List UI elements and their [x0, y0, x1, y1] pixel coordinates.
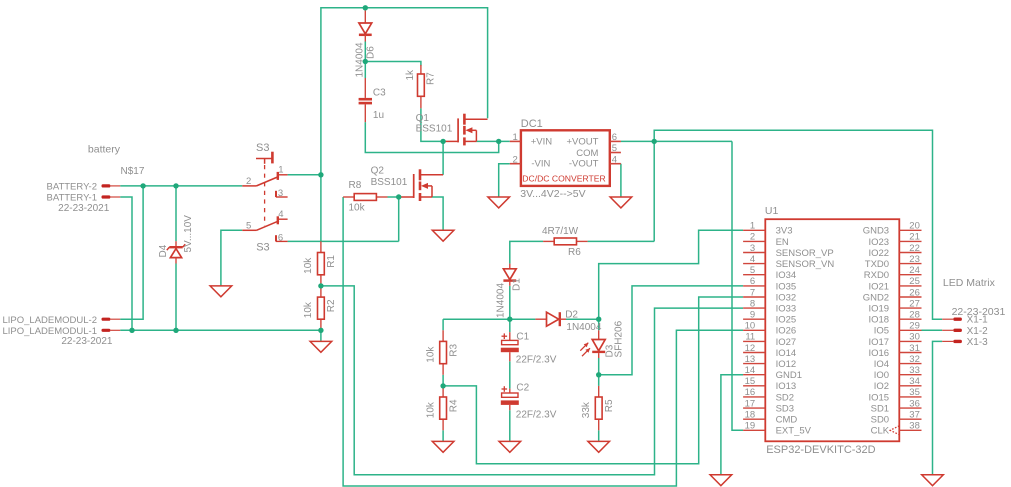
wire C2 to ground — [509, 410, 511, 441]
resistor R4 10k — [425, 386, 459, 430]
svg-text:S3: S3 — [256, 142, 269, 154]
junction D6-C3-R7 — [363, 59, 368, 64]
wire D3 cathode to junction — [598, 358, 600, 375]
svg-text:10k: 10k — [425, 346, 436, 363]
svg-text:D6: D6 — [366, 46, 377, 59]
svg-text:6: 6 — [278, 233, 283, 244]
svg-text:10k: 10k — [303, 257, 314, 274]
svg-text:IO21: IO21 — [868, 281, 889, 292]
ground below R4 — [432, 441, 454, 452]
svg-text:5V...10V: 5V...10V — [183, 215, 194, 253]
U1 pin 31 IO16 — [868, 343, 921, 359]
svg-text:IO32: IO32 — [776, 292, 797, 303]
svg-text:COM: COM — [576, 148, 598, 159]
svg-text:IO19: IO19 — [868, 304, 889, 315]
svg-text:R4: R4 — [448, 399, 459, 412]
svg-text:Q1: Q1 — [416, 113, 430, 124]
junction Q1 gate — [440, 139, 445, 144]
label DC1 range — [520, 188, 585, 200]
wire gnd rail lipo-1 — [120, 329, 321, 331]
svg-text:IO0: IO0 — [874, 370, 889, 381]
svg-text:EN: EN — [776, 237, 789, 248]
pin LIPO_LADEMODUL-1 — [102, 329, 121, 332]
svg-text:5: 5 — [246, 220, 251, 231]
svg-text:BSS101: BSS101 — [416, 124, 453, 135]
svg-text:3V...4V2-->5V: 3V...4V2-->5V — [520, 188, 585, 200]
svg-text:19: 19 — [745, 421, 756, 432]
svg-text:3: 3 — [750, 243, 755, 254]
wire GND1 pin14 to ground — [721, 375, 743, 475]
pin LIPO_LADEMODUL-2 — [102, 318, 121, 321]
svg-text:5: 5 — [612, 143, 617, 154]
svg-text:22-23-2021: 22-23-2021 — [61, 336, 113, 347]
label 22-23-2021 battery — [58, 203, 110, 214]
wire R3 to junction — [442, 375, 444, 386]
svg-text:IO35: IO35 — [776, 281, 797, 292]
svg-text:D1: D1 — [512, 278, 523, 291]
U1 pin 24 RXD0 — [864, 265, 922, 281]
junction R1-R2 tap — [318, 283, 323, 288]
svg-text:SD1: SD1 — [871, 404, 889, 415]
label 22-23-2031 — [952, 306, 1006, 318]
svg-text:R8: R8 — [349, 180, 362, 191]
svg-text:RXD0: RXD0 — [864, 270, 889, 281]
wire R5 top — [598, 375, 600, 386]
svg-text:SD0: SD0 — [871, 415, 889, 426]
svg-text:20: 20 — [909, 221, 920, 232]
svg-text:38: 38 — [909, 421, 920, 432]
wire D2 cathode wire — [566, 318, 599, 320]
junction battery-2 D4 — [173, 183, 178, 188]
wire R5 bottom — [598, 430, 600, 441]
junction S3 to rail — [318, 172, 323, 177]
pin X1-2 — [942, 326, 988, 337]
U1 pin 4 SENSOR_VN — [743, 254, 834, 270]
U1 pin 10 IO26 — [743, 321, 796, 337]
wire top rail — [321, 8, 488, 242]
U1 pin 12 IO14 — [743, 343, 796, 359]
svg-text:37: 37 — [909, 410, 920, 421]
wire D6 cathode — [364, 42, 366, 79]
svg-text:22-23-2031: 22-23-2031 — [952, 306, 1006, 318]
svg-text:IO22: IO22 — [868, 248, 889, 259]
svg-text:GND1: GND1 — [776, 370, 802, 381]
svg-text:13: 13 — [745, 354, 756, 365]
U1 pin 20 GND3 — [863, 221, 922, 237]
svg-text:18: 18 — [745, 410, 756, 421]
switch S3 actuator — [256, 152, 272, 226]
U1 pin 33 IO0 — [874, 365, 922, 381]
svg-text:25: 25 — [909, 276, 920, 287]
svg-text:-VIN: -VIN — [531, 159, 550, 170]
svg-text:10k: 10k — [349, 203, 366, 214]
switch S3 pole A — [242, 164, 287, 199]
svg-text:3: 3 — [278, 188, 283, 199]
svg-text:2: 2 — [246, 176, 251, 187]
svg-text:IO2: IO2 — [874, 381, 889, 392]
svg-text:9: 9 — [750, 310, 755, 321]
U1 pin 32 IO4 — [874, 354, 922, 370]
svg-text:1k: 1k — [405, 69, 416, 81]
svg-text:10k: 10k — [425, 401, 436, 418]
pin BATTERY-2 — [102, 184, 121, 187]
svg-text:22: 22 — [909, 243, 920, 254]
svg-text:IO25: IO25 — [776, 315, 797, 326]
svg-text:BATTERY-1: BATTERY-1 — [46, 192, 97, 203]
U1 pin 13 IO12 — [743, 354, 796, 370]
ground below X1-3 — [922, 475, 944, 486]
ground below DC1 -VOUT — [610, 197, 632, 208]
svg-text:IO16: IO16 — [868, 348, 889, 359]
svg-text:S3: S3 — [256, 241, 269, 253]
wire 5V down to R6 — [653, 141, 655, 241]
ground below DC1 -VIN — [488, 197, 510, 208]
wire S3 pin1 to rail — [288, 174, 321, 176]
label R6 — [568, 247, 581, 258]
wire R1R2 tap to IO33 — [321, 286, 743, 475]
svg-text:10: 10 — [745, 321, 756, 332]
svg-text:battery: battery — [88, 144, 121, 156]
svg-text:GND2: GND2 — [863, 292, 889, 303]
svg-text:ESP32-DEVKITC-32D: ESP32-DEVKITC-32D — [766, 444, 875, 456]
svg-text:N$17: N$17 — [121, 166, 145, 177]
svg-text:11: 11 — [745, 332, 755, 343]
svg-text:28: 28 — [909, 310, 920, 321]
svg-text:C2: C2 — [516, 382, 529, 393]
photodiode D3 SFH206 — [580, 320, 624, 358]
wire D1 to 3V3 node — [509, 286, 511, 319]
svg-text:35: 35 — [909, 387, 920, 398]
U1 pin 21 IO23 — [868, 232, 921, 248]
label LIPO_LADEMODUL-2 — [2, 315, 97, 326]
U1 pin 28 IO18 — [868, 310, 921, 326]
svg-text:-VOUT: -VOUT — [569, 159, 599, 170]
label S3 bottom — [256, 241, 269, 253]
svg-text:8: 8 — [750, 298, 755, 309]
svg-text:IO15: IO15 — [868, 392, 889, 403]
label ESP32-DEVKITC-32D — [766, 444, 875, 456]
svg-text:IO4: IO4 — [874, 359, 889, 370]
capacitor C2 22F/2.3V — [501, 382, 557, 420]
wire battery+ rail — [120, 185, 242, 187]
svg-text:22F/2.3V: 22F/2.3V — [516, 409, 557, 420]
svg-text:CMD: CMD — [776, 415, 798, 426]
svg-text:33: 33 — [909, 365, 920, 376]
transistor Q1 BSS101 — [416, 113, 488, 145]
wire 3V3 row left — [443, 318, 535, 320]
svg-text:R6: R6 — [568, 247, 581, 258]
diode D2 1N4004 — [535, 310, 601, 333]
ground below GND1 — [710, 475, 732, 486]
capacitor C1 22F/2.3V — [501, 331, 557, 365]
svg-text:SENSOR_VP: SENSOR_VP — [776, 248, 834, 259]
wire R7 to Q1 gate — [421, 108, 443, 141]
wire C3 bottom to Q1 source — [365, 122, 498, 152]
U1 pin 9 IO25 — [743, 310, 796, 326]
pin X1-1 — [942, 315, 988, 326]
svg-text:IO13: IO13 — [776, 381, 797, 392]
junction +5V node — [652, 139, 657, 144]
resistor R1 10k — [303, 241, 337, 286]
svg-text:4: 4 — [612, 154, 617, 165]
wire R3R4 tap to IO32 — [443, 297, 743, 464]
wire Q2 source to ground — [432, 197, 443, 230]
U1 pin 34 IO2 — [874, 376, 922, 392]
svg-text:1: 1 — [750, 221, 755, 232]
U1 pin 14 GND1 — [743, 365, 802, 381]
svg-text:4R7/1W: 4R7/1W — [542, 226, 579, 237]
U1 pin 18 CMD — [743, 410, 797, 426]
DC/DC converter DC1 — [510, 118, 621, 186]
svg-text:IO26: IO26 — [776, 326, 797, 337]
wire DC1 -VIN to ground — [499, 164, 510, 197]
wire D3 node to IO35 — [599, 286, 743, 375]
resistor R6 4R7/1W — [543, 238, 588, 245]
wire Q1 source to DC1 +VIN — [476, 140, 509, 142]
U1 pin 22 IO22 — [868, 243, 921, 259]
zener diode D4 5V...10V — [158, 215, 194, 264]
label BATTERY-2 — [46, 181, 97, 192]
wire S3 pin5 to ground — [221, 230, 242, 286]
wire D4 to gnd rail — [175, 264, 177, 331]
svg-text:1: 1 — [513, 132, 518, 143]
U1 pin 15 IO13 — [743, 376, 796, 392]
svg-text:34: 34 — [909, 376, 920, 387]
resistor R3 10k — [425, 330, 459, 375]
svg-text:14: 14 — [745, 365, 756, 376]
svg-text:D4: D4 — [158, 244, 169, 257]
U1 pin 27 IO19 — [868, 298, 921, 314]
U1 pin 17 SD3 — [743, 398, 794, 414]
U1 pin 11 IO27 — [743, 332, 796, 348]
svg-text:33k: 33k — [581, 401, 592, 418]
switch S3 pole B — [242, 209, 287, 244]
svg-text:1: 1 — [278, 164, 283, 175]
svg-text:29: 29 — [909, 321, 920, 332]
label R8 — [349, 180, 362, 191]
svg-text:21: 21 — [909, 232, 920, 243]
wire 3V3 node to pin1 — [599, 230, 743, 319]
wire D6 node to R7 — [365, 62, 421, 66]
wire S3 pin6 wire — [288, 240, 399, 242]
junction top rail D6 — [363, 5, 368, 10]
svg-text:5: 5 — [750, 265, 755, 276]
svg-text:1u: 1u — [373, 110, 384, 121]
U1 pin 25 IO21 — [868, 276, 921, 292]
wire R6 left to D1 — [510, 241, 543, 263]
junction D3 cathode — [596, 372, 601, 377]
junction 3V3 C1 — [507, 317, 512, 322]
ground below S3 pole2 — [210, 286, 232, 297]
label R8 value — [349, 203, 366, 214]
svg-text:31: 31 — [909, 343, 920, 354]
junction gnd rail a — [129, 328, 134, 333]
wire 5V to EXT_5V pin19 — [732, 141, 743, 430]
svg-text:R1: R1 — [326, 255, 337, 268]
svg-text:IO14: IO14 — [776, 348, 797, 359]
resistor R7 1k — [405, 65, 436, 108]
svg-text:X1-3: X1-3 — [967, 337, 989, 348]
wire C1 top — [509, 319, 511, 332]
capacitor C3 1u — [359, 78, 387, 122]
svg-text:22-23-2021: 22-23-2021 — [58, 203, 110, 214]
svg-text:+VOUT: +VOUT — [566, 137, 598, 148]
svg-text:2: 2 — [750, 232, 755, 243]
wire DC1 -VOUT to ground — [620, 164, 622, 197]
wire 5V to X1-1 — [654, 130, 942, 319]
U1 pin 29 IO5 — [874, 321, 922, 337]
label R6 value — [542, 226, 579, 237]
svg-text:4: 4 — [750, 254, 755, 265]
svg-text:TXD0: TXD0 — [865, 259, 889, 270]
svg-text:IO27: IO27 — [776, 337, 797, 348]
junction gnd rail R2 — [318, 328, 323, 333]
svg-text:R5: R5 — [604, 399, 615, 412]
U1 pin 19 EXT_5V — [743, 421, 812, 437]
svg-text:4: 4 — [278, 209, 283, 220]
pin X1-3 — [942, 337, 988, 348]
ground below Q2 — [432, 230, 454, 241]
ground below R5 — [588, 441, 610, 452]
svg-text:IO34: IO34 — [776, 270, 797, 281]
wire X1-2 to IO5 — [922, 329, 943, 331]
U1 pin 1 3V3 — [743, 221, 792, 237]
svg-text:IO18: IO18 — [868, 315, 889, 326]
svg-text:LED Matrix: LED Matrix — [943, 277, 996, 289]
U1 pin 23 TXD0 — [865, 254, 922, 270]
wire Q1 to Q2 drain — [442, 141, 444, 174]
svg-text:22F/2.3V: 22F/2.3V — [516, 354, 557, 365]
resistor R5 33k — [581, 386, 615, 430]
svg-text:Q2: Q2 — [371, 166, 385, 177]
wire R3 top — [442, 319, 444, 330]
wire R2 bottom to ground — [320, 330, 322, 341]
wire R8 right to junction — [388, 196, 399, 198]
svg-text:6: 6 — [750, 276, 755, 287]
svg-text:26: 26 — [909, 287, 920, 298]
svg-text:16: 16 — [745, 387, 756, 398]
U1 pin 7 IO32 — [743, 287, 796, 303]
svg-text:D2: D2 — [565, 310, 578, 321]
ground below C2 — [499, 441, 521, 452]
svg-text:BSS101: BSS101 — [371, 177, 408, 188]
diode D6 1N4004 — [354, 11, 376, 78]
svg-text:R7: R7 — [426, 72, 437, 85]
IC U1 body — [765, 219, 899, 441]
label battery — [88, 144, 121, 156]
svg-text:3V3: 3V3 — [776, 226, 793, 237]
svg-text:30: 30 — [909, 332, 920, 343]
svg-text:6: 6 — [612, 132, 617, 143]
svg-text:IO12: IO12 — [776, 359, 797, 370]
svg-text:DC1: DC1 — [521, 118, 543, 130]
svg-text:LIPO_LADEMODUL-2: LIPO_LADEMODUL-2 — [2, 315, 97, 326]
svg-text:24: 24 — [909, 265, 920, 276]
svg-text:27: 27 — [909, 298, 920, 309]
svg-text:IO33: IO33 — [776, 304, 797, 315]
wire lipo-2 to battery-2 — [120, 186, 143, 319]
wire C1 to C2 — [509, 361, 511, 388]
svg-text:DC/DC CONVERTER: DC/DC CONVERTER — [522, 174, 605, 184]
label S3 top — [256, 142, 269, 154]
transistor Q2 BSS101 — [371, 166, 444, 202]
resistor R2 10k — [303, 286, 337, 330]
svg-text:CLK: CLK — [871, 426, 890, 437]
U1 pin 6 IO35 — [743, 276, 796, 292]
svg-text:GND3: GND3 — [863, 226, 889, 237]
U1 pin 16 SD2 — [743, 387, 794, 403]
label LED Matrix — [943, 277, 996, 289]
svg-text:+VIN: +VIN — [531, 137, 553, 148]
U1 pin 3 SENSOR_VP — [743, 243, 834, 259]
svg-text:BATTERY-2: BATTERY-2 — [46, 181, 97, 192]
svg-text:SD2: SD2 — [776, 392, 794, 403]
svg-text:10k: 10k — [303, 301, 314, 318]
resistor R8 10k — [343, 194, 387, 201]
svg-text:15: 15 — [745, 376, 756, 387]
U1 pin 8 IO33 — [743, 298, 796, 314]
svg-text:SENSOR_VN: SENSOR_VN — [776, 259, 835, 270]
svg-text:IO23: IO23 — [868, 237, 889, 248]
svg-text:2: 2 — [513, 154, 518, 165]
wire DC1 +VOUT 5V rail — [621, 140, 732, 142]
junction gnd rail D4 — [173, 328, 178, 333]
junction Q1 source +VIN — [496, 139, 501, 144]
svg-text:SFH206: SFH206 — [614, 320, 625, 357]
junction 3V3 D2-D3 — [596, 317, 601, 322]
junction Q2 gate — [396, 194, 401, 199]
wire R6 right wire — [588, 240, 655, 242]
svg-text:1N4004: 1N4004 — [495, 283, 506, 318]
svg-text:X1-2: X1-2 — [967, 326, 989, 337]
svg-text:IO5: IO5 — [874, 326, 889, 337]
wire X1-3 to ground — [933, 341, 943, 474]
label N$17 — [121, 166, 145, 177]
U1 pin 37 SD0 — [871, 410, 922, 426]
junction battery-2 a — [140, 183, 145, 188]
svg-text:C1: C1 — [516, 331, 529, 342]
U1 pin 5 IO34 — [743, 265, 796, 281]
svg-text:12: 12 — [745, 343, 756, 354]
svg-text:U1: U1 — [765, 205, 779, 217]
svg-text:R2: R2 — [326, 299, 337, 312]
label U1 — [765, 205, 779, 217]
U1 pin 35 IO15 — [868, 387, 921, 403]
junction R3-R4 tap — [440, 383, 445, 388]
svg-text:C3: C3 — [373, 87, 386, 98]
wire D3 anode stub — [598, 319, 600, 330]
wire battery-1 down — [120, 197, 132, 330]
label LIPO_LADEMODUL-1 — [2, 326, 97, 337]
svg-text:36: 36 — [909, 398, 920, 409]
svg-text:23: 23 — [909, 254, 920, 265]
svg-text:1N4004: 1N4004 — [566, 322, 601, 333]
wire gate junction down — [398, 197, 400, 241]
wire battery+ to D4 — [175, 186, 177, 241]
U1 pin 36 SD1 — [871, 398, 922, 414]
pin BATTERY-1 — [102, 195, 121, 198]
svg-text:IO17: IO17 — [868, 337, 889, 348]
wire R4 bottom — [442, 430, 444, 441]
svg-text:17: 17 — [745, 398, 756, 409]
diode D1 1N4004 — [495, 264, 522, 318]
U1 pin 38 CLK — [871, 421, 922, 437]
U1 pin 2 EN — [743, 232, 789, 248]
svg-text:EXT_5V: EXT_5V — [776, 426, 812, 437]
svg-text:R3: R3 — [448, 343, 459, 356]
svg-text:32: 32 — [909, 354, 920, 365]
wire R8 left to IO26 — [343, 197, 743, 486]
